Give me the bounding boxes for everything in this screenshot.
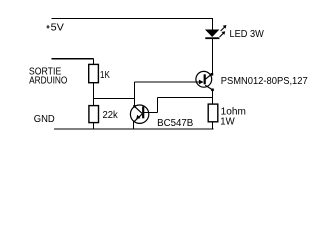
svg-text:PSMN012-80PS,127: PSMN012-80PS,127	[221, 76, 308, 87]
wire Q1 emitter to ground	[133, 122, 135, 130]
ground rail	[54, 128, 214, 130]
svg-text:LED 3W: LED 3W	[230, 29, 265, 40]
wire R4 bottom to ground rail	[212, 122, 214, 130]
wire R1 top stem	[93, 58, 95, 64]
wire R2 bottom stem	[93, 123, 95, 130]
wire Q1 collector riser	[157, 98, 159, 113]
wire LED anode from rail	[212, 19, 214, 31]
wire node A up to gate line and down to Q1	[134, 82, 136, 106]
wire sortie arduino to R1	[52, 58, 94, 60]
wire R1 bottom to node A	[93, 83, 95, 99]
resistor R2 22k	[89, 106, 99, 123]
wire gate line to Q2	[135, 81, 203, 83]
transistor Q2 PSMN012-80PS (upper)	[196, 71, 214, 91]
resistor R1 1K	[89, 64, 99, 82]
svg-text:1K: 1K	[100, 70, 110, 81]
svg-text:22k: 22k	[103, 110, 119, 121]
resistor R4 1ohm	[208, 104, 218, 122]
node: Q2 drain junction	[211, 73, 214, 76]
LED light arrow 1	[221, 27, 225, 31]
svg-text:5V: 5V	[51, 22, 65, 33]
svg-text:GND: GND	[34, 114, 55, 125]
wire node A horizontal	[94, 98, 135, 100]
label +5V	[46, 22, 64, 33]
wire LED cathode down to Q2	[212, 38, 214, 75]
LED D1	[205, 25, 226, 38]
transistor Q1 BC547B (lower)	[130, 105, 148, 123]
wire Q1 to Q2 source node	[158, 97, 213, 99]
wire Q2 source down to R4	[212, 90, 214, 105]
svg-text:BC547B: BC547B	[157, 118, 194, 129]
svg-text:1W: 1W	[220, 116, 235, 127]
node: Q2 source junction	[211, 89, 214, 92]
node: Q1 base junction	[133, 105, 136, 108]
LED light arrow 2	[220, 33, 224, 37]
wire +5V top rail	[52, 17, 214, 19]
wire R2 top stem	[93, 99, 95, 106]
svg-text:ARDUINO: ARDUINO	[29, 75, 67, 86]
wire Q1 collector to source node: horizontal from bar	[144, 112, 158, 114]
